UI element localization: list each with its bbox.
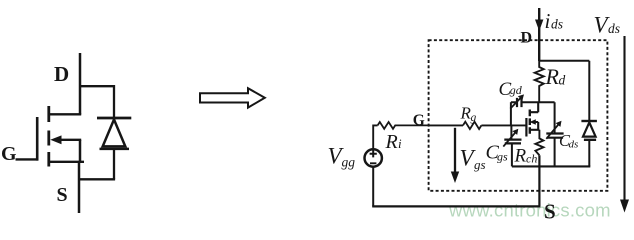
svg-text:S: S	[544, 200, 556, 224]
wire: bottom return rail	[372, 205, 540, 207]
diode D2 triangle	[583, 122, 596, 136]
svg-text:ch: ch	[526, 151, 537, 165]
wire: drain lead into model	[538, 8, 540, 61]
wire: Vgg top to Ri	[373, 125, 377, 149]
label i_ds	[545, 9, 564, 33]
transistor Q1 source stub	[49, 161, 84, 163]
wire: body-diode bottom to source	[78, 178, 115, 180]
diode D2 cathode bar	[581, 120, 597, 122]
voltage source minus sign	[370, 162, 376, 164]
current arrow i_ds arrowhead	[535, 20, 543, 32]
wire: source lead down to bottom rail	[538, 155, 540, 206]
label R_ch	[514, 146, 538, 167]
transistor Q1 channel dashes	[47, 106, 50, 167]
svg-text:S: S	[57, 184, 68, 206]
wire: Vgg bottom down	[372, 166, 374, 206]
resistor Ri zigzag	[378, 122, 429, 129]
capacitor C_ds plates	[546, 134, 563, 138]
transistor M body stub with arrow	[533, 122, 538, 130]
label V_gs	[460, 146, 486, 173]
transistor M drain stub	[530, 102, 538, 112]
diode D1 cathode bar	[97, 117, 131, 120]
svg-text:ds: ds	[551, 17, 563, 32]
wire: internal source rail	[512, 165, 590, 167]
capacitor C_gd plates	[517, 98, 522, 107]
transistor M channel dashes	[529, 110, 531, 134]
label R_d	[545, 64, 566, 89]
capacitor C_gs plates	[504, 140, 521, 144]
label R_g	[460, 104, 477, 125]
capacitor C_gs variable arrow	[503, 132, 515, 146]
dashed model boundary box	[429, 40, 608, 191]
svg-text:G: G	[1, 143, 17, 165]
svg-text:R: R	[545, 64, 560, 89]
capacitor C_gs branch vertical	[510, 125, 513, 166]
svg-text:gg: gg	[342, 154, 356, 169]
diode D1 triangle	[103, 120, 126, 147]
wire: source lead	[78, 162, 81, 213]
diode D2 anode bar	[584, 139, 596, 141]
svg-text:d: d	[559, 73, 566, 88]
svg-text:gs: gs	[497, 150, 508, 164]
wire: body-diode top vertical	[113, 85, 115, 118]
capacitor C_gd variable arrow	[510, 97, 521, 108]
wire: gate wire from box to MOSFET	[429, 124, 527, 126]
wire: internal drain node horizontal	[511, 101, 555, 103]
label C_ds	[559, 131, 578, 150]
transistor Q1 gate bar	[36, 117, 39, 161]
capacitor C_ds branch vertical	[554, 102, 556, 166]
label V_gg	[328, 144, 356, 170]
svg-text:i: i	[545, 9, 551, 33]
label R_i	[385, 131, 403, 153]
diode D1 anode bar	[100, 148, 130, 151]
resistor Rg zigzag	[463, 122, 481, 129]
transistor Q1 drain stub	[49, 113, 81, 115]
svg-text:G: G	[413, 112, 425, 129]
transistor M (inner MOSFET) gate bar	[525, 118, 527, 137]
svg-text:ds: ds	[608, 21, 620, 36]
wire: body-diode bottom vertical	[113, 149, 115, 179]
transistor Q1 body stub with arrow	[58, 139, 81, 141]
capacitor C_ds variable arrow	[546, 124, 558, 138]
label C_gd	[499, 79, 523, 100]
svg-text:ds: ds	[569, 139, 579, 151]
wire: body-to-source vertical	[79, 140, 82, 162]
transistor M source stub	[530, 129, 540, 131]
diode D2 bottom lead	[588, 140, 590, 167]
wire: top node to diode branch	[539, 60, 589, 62]
voltage source plus sign	[370, 150, 377, 157]
wire: drain to body-diode top	[80, 85, 114, 87]
measurement arrow V_ds (right side)	[623, 36, 625, 201]
svg-text:R: R	[385, 131, 398, 153]
voltage source Vgg circle	[365, 149, 382, 166]
measurement arrow V_gs	[454, 128, 456, 173]
wire: C_gd branch vertical to gate node	[510, 102, 512, 125]
svg-text:i: i	[398, 136, 402, 151]
svg-text:gs: gs	[474, 157, 486, 172]
arrow symbol (equivalence arrow)	[200, 88, 265, 107]
svg-text:www.cntronics.com: www.cntronics.com	[448, 200, 611, 221]
wire: gate lead	[16, 158, 39, 160]
svg-text:gd: gd	[510, 83, 523, 97]
svg-text:R: R	[514, 146, 527, 167]
resistor Rd zigzag	[535, 61, 544, 102]
svg-text:D: D	[54, 62, 69, 86]
diode D2 top lead	[588, 61, 590, 121]
resistor Rch zigzag	[535, 130, 543, 156]
svg-text:D: D	[521, 30, 533, 47]
svg-text:g: g	[471, 112, 477, 124]
wire: drain lead	[79, 53, 82, 115]
label V_ds	[594, 12, 621, 37]
label C_gs	[486, 141, 509, 163]
